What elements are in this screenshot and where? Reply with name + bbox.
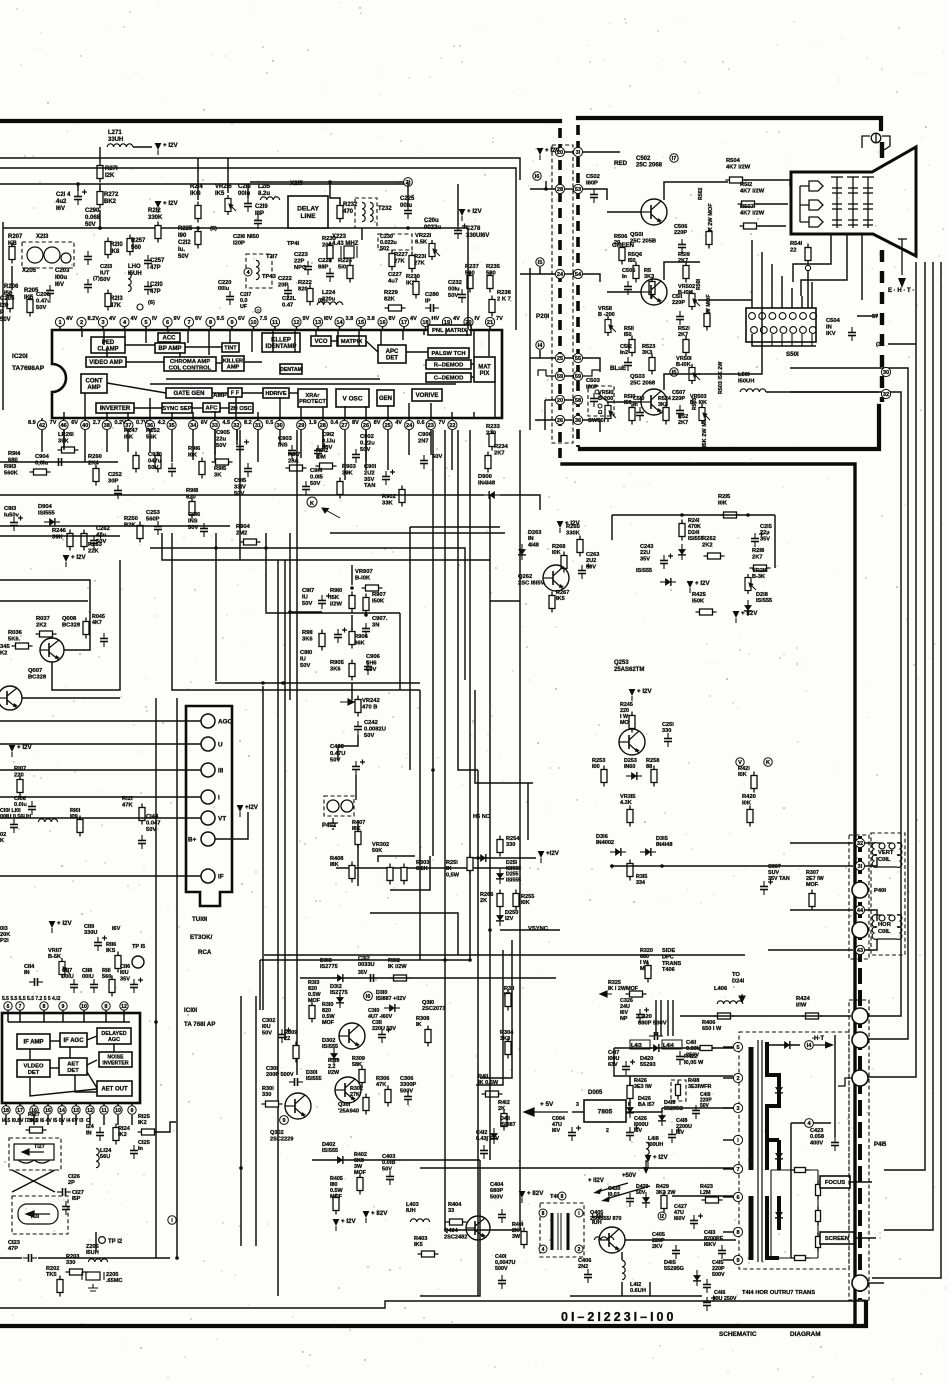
P401 pin 32 xyxy=(855,838,864,847)
P201 pin 58 xyxy=(573,395,582,404)
arrow L418 down xyxy=(643,1160,649,1174)
svg-text:I5UH: I5UH xyxy=(128,271,142,277)
junction xyxy=(98,226,102,230)
label pin voltage xyxy=(114,420,126,426)
svg-text:3E3 IW: 3E3 IW xyxy=(634,1084,653,1090)
svg-text:R403: R403 xyxy=(414,1236,427,1242)
label R127 xyxy=(28,1112,40,1124)
svg-text:7V: 7V xyxy=(438,420,445,426)
inductor L403 xyxy=(410,1219,429,1222)
resistor R429 xyxy=(661,1192,667,1213)
resistor R238 xyxy=(489,296,495,317)
svg-text:I5P: I5P xyxy=(72,1196,81,1202)
svg-text:17: 17 xyxy=(401,320,407,326)
label III xyxy=(218,768,224,775)
svg-text:C22L: C22L xyxy=(282,296,297,302)
svg-text:+I2V: +I2V xyxy=(546,850,560,857)
svg-text:R3II: R3II xyxy=(504,986,515,992)
wire pin drop xyxy=(171,430,173,462)
IC20 pin 30 xyxy=(275,420,284,429)
resistor R408 xyxy=(349,862,355,883)
svg-text:I/IW: I/IW xyxy=(796,1002,807,1008)
socket pin bottom xyxy=(800,327,807,334)
wire xyxy=(351,565,353,585)
svg-text:VIDEO AMP: VIDEO AMP xyxy=(89,360,122,366)
wire bus xyxy=(284,560,286,1040)
svg-text:C907.: C907. xyxy=(372,616,388,622)
label C900 xyxy=(418,432,432,444)
svg-text:6V: 6V xyxy=(71,420,78,426)
test point TP15 xyxy=(132,956,144,968)
label P201 xyxy=(536,313,549,320)
label R916 xyxy=(188,446,201,458)
wire xyxy=(790,909,853,911)
trimmer VR907 xyxy=(362,585,383,591)
svg-text:7: 7 xyxy=(19,1004,22,1010)
wire pin stub xyxy=(300,418,302,420)
supply +12V rail xyxy=(645,1154,669,1167)
svg-text:22U: 22U xyxy=(640,550,650,556)
wire xyxy=(583,189,607,200)
label T414 xyxy=(742,1290,815,1296)
svg-text:TK5: TK5 xyxy=(46,1272,57,1278)
wire IC101 pin drop xyxy=(103,1115,105,1125)
CRT grid G2 xyxy=(847,177,859,228)
svg-text:I6V: I6V xyxy=(56,206,65,212)
node 4b xyxy=(244,268,252,276)
svg-text:56U: 56U xyxy=(100,1154,110,1160)
label R271 xyxy=(105,166,118,179)
label VR302 xyxy=(372,842,389,854)
capacitor C218 xyxy=(244,198,252,212)
svg-text:3.8: 3.8 xyxy=(367,316,375,322)
wire pin stub xyxy=(451,418,453,420)
resistor R215 xyxy=(720,512,741,518)
svg-text:TUI0I: TUI0I xyxy=(192,916,207,923)
left board bottom border xyxy=(0,1302,866,1326)
svg-text:L2I5: L2I5 xyxy=(258,184,271,190)
label R263 xyxy=(88,542,103,554)
resistor R423 xyxy=(702,1197,723,1203)
capacitor C220 xyxy=(226,291,234,305)
svg-text:500V: 500V xyxy=(490,1194,503,1200)
resistor R320 xyxy=(645,962,651,983)
label Q502 xyxy=(636,156,663,169)
capacitor C905 xyxy=(236,440,249,456)
wire pin drop xyxy=(106,430,108,452)
svg-text:12: 12 xyxy=(87,1108,93,1114)
node 2 xyxy=(404,178,413,187)
supply +112V diagonal arrow xyxy=(588,1178,628,1194)
resistor R111 xyxy=(109,976,115,997)
svg-text:Ω: Ω xyxy=(598,410,603,416)
inner bottom wire xyxy=(0,1301,864,1308)
resistor R258 xyxy=(651,766,657,787)
wire pin8 row xyxy=(625,1239,736,1241)
svg-text:I0M: I0M xyxy=(316,454,326,460)
supply +112V T405 xyxy=(519,1190,545,1203)
svg-text:Iu.: Iu. xyxy=(178,247,185,253)
wire video rail xyxy=(0,494,484,496)
svg-text:IKV: IKV xyxy=(826,331,836,337)
wire IC20 pin stub bottom xyxy=(84,393,86,418)
svg-text:2 K 7: 2 K 7 xyxy=(497,297,511,303)
junction xyxy=(680,513,684,517)
wire internal xyxy=(87,1060,97,1065)
svg-text:I0K: I0K xyxy=(552,550,561,556)
wire pin drop xyxy=(279,430,281,444)
wire IC20 pin stub xyxy=(124,330,126,337)
svg-text:55295G: 55295G xyxy=(664,1106,683,1112)
capacitor C913 xyxy=(10,516,23,532)
svg-text:B-3K: B-3K xyxy=(752,574,765,580)
label Q501 xyxy=(630,232,656,244)
resistor R510 xyxy=(629,404,635,425)
svg-text:C505: C505 xyxy=(622,268,635,274)
label pin voltage xyxy=(266,420,274,426)
svg-text:XRAr: XRAr xyxy=(306,393,321,399)
supply +12V Q262 xyxy=(557,520,581,533)
terminal circle xyxy=(137,304,143,310)
transformer T405 body xyxy=(552,1213,568,1250)
label R238 xyxy=(497,290,512,303)
svg-text:50V: 50V xyxy=(36,305,46,311)
svg-text:3K6: 3K6 xyxy=(330,666,341,672)
svg-text:INVERTER: INVERTER xyxy=(102,1060,128,1066)
svg-text:4.5: 4.5 xyxy=(222,420,230,426)
svg-text:L224: L224 xyxy=(322,290,336,296)
horizontal deflection coil xyxy=(872,915,902,940)
svg-text:IK2: IK2 xyxy=(118,1132,127,1138)
wire pin stub xyxy=(167,327,169,330)
label C914 xyxy=(310,468,324,487)
label pin voltage xyxy=(50,420,57,426)
block MATPIX xyxy=(337,336,366,346)
svg-text:I50: I50 xyxy=(624,400,632,406)
label R250 xyxy=(124,516,138,528)
wire xyxy=(790,1123,792,1258)
svg-text:SCREEN: SCREEN xyxy=(825,1236,849,1242)
wire pin stub xyxy=(723,1077,733,1079)
label C263 xyxy=(586,552,599,570)
svg-text:2: 2 xyxy=(606,1128,609,1134)
svg-text:R503 I5K 2W: R503 I5K 2W xyxy=(718,361,724,394)
block flip flop xyxy=(228,388,242,397)
block CONT AMP xyxy=(81,374,107,393)
svg-text:R52I: R52I xyxy=(678,326,690,332)
wire xyxy=(215,682,298,684)
svg-text:VRII7: VRII7 xyxy=(48,948,62,954)
svg-text:34: 34 xyxy=(190,423,197,429)
svg-text:X2I5: X2I5 xyxy=(290,180,303,187)
svg-text:36: 36 xyxy=(575,418,581,424)
wire xyxy=(572,1111,584,1113)
svg-text:59: 59 xyxy=(557,374,563,380)
svg-text:UF: UF xyxy=(240,304,248,310)
svg-text:I7: I7 xyxy=(672,156,677,162)
svg-text:IN: IN xyxy=(528,536,534,542)
svg-text:COL CONTROL: COL CONTROL xyxy=(169,365,212,371)
label T232 xyxy=(378,206,392,212)
svg-text:2H OSC: 2H OSC xyxy=(230,406,252,412)
wire xyxy=(247,184,249,198)
label R261 xyxy=(58,432,74,444)
wire IC101 pin drop xyxy=(83,1010,85,1022)
focus divider chain xyxy=(771,1170,818,1258)
svg-text:22u: 22u xyxy=(216,436,226,442)
svg-text:R255: R255 xyxy=(521,894,534,900)
svg-text:C504: C504 xyxy=(826,318,841,324)
wire xyxy=(629,1076,631,1086)
wire IC20 pin stub bottom xyxy=(257,412,259,418)
svg-text:DET: DET xyxy=(67,1068,79,1074)
wire pin stub xyxy=(188,327,190,330)
capacitor C225 xyxy=(404,205,412,219)
svg-text:7: 7 xyxy=(187,320,190,326)
resistor R516 xyxy=(633,262,639,283)
svg-text:IN4I48: IN4I48 xyxy=(478,480,496,486)
svg-text:R30I: R30I xyxy=(262,1086,274,1092)
capacitor C119 xyxy=(94,936,107,952)
diode D900 xyxy=(484,491,500,499)
label R914 xyxy=(8,451,21,463)
label C416 xyxy=(714,1290,737,1302)
svg-text:T406: T406 xyxy=(662,967,675,973)
svg-text:0.0082U: 0.0082U xyxy=(364,726,386,732)
wire xyxy=(330,182,340,204)
label C505 xyxy=(622,268,635,280)
svg-text:R2I0: R2I0 xyxy=(110,242,123,248)
svg-text:I0K: I0K xyxy=(521,900,530,906)
resistor R411 xyxy=(482,1091,503,1097)
IC20 pin 12 xyxy=(292,317,301,326)
capacitor xyxy=(84,279,92,293)
svg-text:B -200: B -200 xyxy=(598,312,615,318)
svg-text:2.7: 2.7 xyxy=(93,420,101,426)
block PED CLAMP xyxy=(91,337,125,353)
T405 pin 4 xyxy=(539,1245,547,1253)
wire pin link xyxy=(565,419,574,421)
svg-text:25: 25 xyxy=(384,423,390,429)
wire socket riser xyxy=(791,288,793,308)
label C243 xyxy=(640,544,653,562)
svg-text:50V: 50V xyxy=(310,481,320,487)
svg-text:DET: DET xyxy=(386,356,398,362)
diode D243 xyxy=(660,578,676,586)
wire pin drop xyxy=(214,430,216,455)
wire IC20 pin stub bottom xyxy=(300,407,302,418)
svg-text:R262: R262 xyxy=(702,536,716,542)
wire IC101 pin drop xyxy=(105,1010,107,1022)
resistor R910 xyxy=(349,592,355,613)
label R252 xyxy=(146,428,160,440)
label R306 xyxy=(376,1076,389,1088)
wire IC20 pin stub bottom xyxy=(365,406,367,418)
wire internal xyxy=(50,1067,59,1069)
junction xyxy=(476,856,480,860)
wire xyxy=(0,525,230,527)
resistor R504 xyxy=(726,177,747,183)
label C913 xyxy=(4,506,20,518)
wire IC20 pin stub bottom xyxy=(192,412,194,418)
wire pin stub xyxy=(102,327,104,330)
wire pin drop long xyxy=(365,430,367,462)
P401 pin xyxy=(852,882,868,898)
svg-text:C280: C280 xyxy=(425,292,439,298)
svg-text:TINT: TINT xyxy=(224,346,237,352)
label pin voltage xyxy=(303,316,310,322)
svg-text:LINE: LINE xyxy=(300,213,316,220)
transistor Q404 xyxy=(466,1216,490,1240)
svg-text:R2I5: R2I5 xyxy=(718,494,731,500)
resistor R312 xyxy=(390,975,411,981)
diode D312 xyxy=(336,992,344,1008)
label R303 xyxy=(416,860,429,872)
svg-text:I50: I50 xyxy=(624,332,632,338)
wire bottom row xyxy=(570,1295,702,1297)
wire xyxy=(77,184,79,191)
IC20 pin 15 xyxy=(356,317,365,326)
label R912 xyxy=(316,448,328,460)
label pin voltage xyxy=(109,316,116,322)
svg-text:33: 33 xyxy=(212,423,218,429)
svg-text:25AS62TM: 25AS62TM xyxy=(614,667,644,673)
label R265 xyxy=(566,524,581,536)
wire pin drop xyxy=(41,430,43,452)
wire pin link xyxy=(565,399,574,401)
svg-text:C306: C306 xyxy=(400,1076,413,1082)
svg-text:D3I2: D3I2 xyxy=(330,984,342,990)
svg-text:+ I2V: + I2V xyxy=(695,580,710,587)
inductor L410 xyxy=(594,1237,613,1240)
IC101 pin 18 xyxy=(2,1106,10,1114)
socket pin top xyxy=(749,313,756,320)
svg-text:P20I: P20I xyxy=(536,313,549,320)
IC20 pin 2 xyxy=(77,317,86,326)
label C510 xyxy=(633,396,644,408)
wire IC20 pin stub xyxy=(358,330,360,346)
label L210 xyxy=(128,264,142,277)
svg-text:ISI887: ISI887 xyxy=(500,1122,516,1128)
svg-text:IP: IP xyxy=(425,299,431,305)
svg-text:AFC: AFC xyxy=(206,406,219,412)
trimmer VR501 xyxy=(689,364,700,384)
svg-text:RI07: RI07 xyxy=(14,766,26,772)
socket pin bottom xyxy=(780,327,787,334)
label R251b xyxy=(446,860,460,878)
wire IC20 pin stub bottom xyxy=(214,411,216,418)
svg-text:500V: 500V xyxy=(400,1088,413,1094)
svg-text:4u7: 4u7 xyxy=(388,279,398,285)
svg-text:0.22u: 0.22u xyxy=(360,440,375,446)
IC20 pin 36 xyxy=(145,420,154,429)
label R304 xyxy=(500,1030,514,1042)
svg-text:C906: C906 xyxy=(366,654,381,660)
svg-text:IDENTAMP: IDENTAMP xyxy=(266,344,297,350)
wire IC20 pin stub xyxy=(103,330,105,345)
wire IC20 pin stub xyxy=(229,330,231,343)
svg-text:00IU 0.56UH: 00IU 0.56UH xyxy=(0,814,31,820)
block KILLER AMP xyxy=(222,356,244,371)
wire IC101 pin drop xyxy=(47,1115,49,1125)
resistor R541 xyxy=(805,244,811,265)
svg-text:AMP: AMP xyxy=(227,365,240,371)
transistor Q253 xyxy=(619,729,645,755)
label R902 xyxy=(382,494,396,506)
transistor Q303 xyxy=(339,1023,365,1049)
label R420 xyxy=(742,794,756,806)
capacitor C915 xyxy=(244,463,252,477)
supply +12V IF xyxy=(49,920,73,933)
svg-text:BK2: BK2 xyxy=(104,199,117,205)
svg-text:I90: I90 xyxy=(178,233,187,239)
wire pin drop xyxy=(127,430,129,452)
svg-text:TA 768I AP: TA 768I AP xyxy=(184,1021,215,1028)
node K2 xyxy=(764,758,772,766)
wire IC20 pin stub bottom xyxy=(322,407,324,418)
svg-text:I6V: I6V xyxy=(676,1130,684,1136)
svg-text:VR907: VR907 xyxy=(355,569,373,575)
P401 pin 43 xyxy=(855,945,864,954)
label C504 xyxy=(826,318,841,337)
label R272 xyxy=(104,192,119,205)
svg-text:R2I8: R2I8 xyxy=(752,548,765,554)
svg-text:VCO: VCO xyxy=(314,339,327,345)
wire pin stub xyxy=(723,1107,733,1109)
svg-text:R037: R037 xyxy=(36,616,50,622)
label P21 xyxy=(0,938,9,944)
resistor R305 xyxy=(359,1066,365,1087)
svg-text:HV: HV xyxy=(432,316,440,322)
wire IC101 pin stub xyxy=(103,1103,105,1106)
label C257 xyxy=(150,258,165,271)
supply +12V tuner xyxy=(237,804,259,817)
capacitor C418 xyxy=(668,1128,681,1144)
resistor R313 xyxy=(309,1002,315,1023)
wire socket riser xyxy=(801,296,803,308)
svg-text:R233: R233 xyxy=(486,424,501,430)
svg-text:I6V: I6V xyxy=(634,1128,642,1134)
wire socket riser xyxy=(781,276,783,308)
block SYNC SEP xyxy=(162,403,192,413)
block R-Y DEMOD xyxy=(426,360,471,369)
socket pin top xyxy=(769,313,776,320)
svg-text:4V: 4V xyxy=(109,316,116,322)
node 14 xyxy=(536,341,544,349)
label pin voltage xyxy=(66,316,73,322)
CRT heater stub xyxy=(880,142,884,158)
resistor R127 xyxy=(26,1127,47,1133)
svg-text:2K7: 2K7 xyxy=(494,450,505,456)
label T217 xyxy=(266,254,278,260)
svg-text:K: K xyxy=(766,760,770,766)
filter X213 outline xyxy=(22,242,74,268)
svg-text:7V: 7V xyxy=(50,420,57,426)
svg-text:0I3: 0I3 xyxy=(0,926,8,932)
wire xyxy=(490,600,520,602)
svg-text:C930: C930 xyxy=(148,452,162,458)
svg-text:27K: 27K xyxy=(350,1092,360,1098)
svg-text:44: 44 xyxy=(857,908,864,914)
svg-text:35V: 35V xyxy=(120,976,130,982)
wire xyxy=(768,949,853,951)
wire pin link xyxy=(565,151,574,153)
wire xyxy=(338,735,358,760)
wire IC20 pin stub xyxy=(145,330,147,343)
resistor R911 xyxy=(319,630,325,651)
IC20 pin 20 xyxy=(464,317,473,326)
svg-text:330: 330 xyxy=(506,842,515,848)
